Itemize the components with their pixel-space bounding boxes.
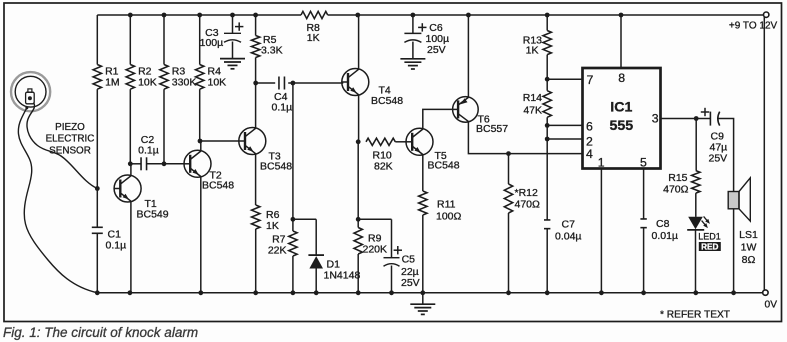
wire T2 emitter xyxy=(200,177,202,293)
LED LED1 xyxy=(687,216,710,292)
junction bottom rail R6 xyxy=(253,290,258,295)
wire pin1 to 0V xyxy=(600,169,602,293)
node 0V terminal xyxy=(763,290,777,311)
wire pin6 xyxy=(547,124,582,126)
svg-text:0V: 0V xyxy=(765,300,778,311)
wire T4 emitter xyxy=(358,95,360,142)
wire T3 collector xyxy=(255,83,257,128)
svg-text:0.04µ: 0.04µ xyxy=(555,230,582,242)
label RED xyxy=(699,242,721,252)
resistor R2 xyxy=(126,15,157,89)
svg-text:10K: 10K xyxy=(138,76,157,88)
resistor R13 xyxy=(523,15,552,79)
wire branch to D1 xyxy=(293,218,316,220)
junction bottom rail LED1 xyxy=(693,290,698,295)
resistor R10 xyxy=(366,138,395,172)
wire R2 junction to C2 xyxy=(130,163,141,165)
svg-text:R15: R15 xyxy=(668,172,687,184)
junction pin3/C9/R15 xyxy=(694,116,699,121)
pin 2 label xyxy=(586,134,593,148)
transistor T3 BC548 xyxy=(239,128,292,173)
resistor R8 xyxy=(301,11,328,44)
svg-text:BC548: BC548 xyxy=(202,179,234,191)
junction bottom rail C5 xyxy=(389,290,394,295)
transistor T6 BC557 xyxy=(453,97,509,135)
capacitor C3 xyxy=(200,15,244,59)
junction bottom rail D1 xyxy=(314,290,319,295)
svg-text:0.1µ: 0.1µ xyxy=(106,240,127,252)
junction bottom rail *R12 xyxy=(506,290,511,295)
wire pin3 xyxy=(661,118,697,120)
transistor T1 BC549 xyxy=(114,175,169,221)
svg-text:4: 4 xyxy=(586,147,593,161)
ground C3 xyxy=(220,59,245,69)
wire pin4 line xyxy=(509,153,583,155)
wire T5 emitter to R11 xyxy=(422,155,424,191)
transistor T2 BC548 xyxy=(184,150,234,191)
wire T5 collector to T6 base xyxy=(423,109,453,128)
wire pin6 to pin2 column xyxy=(546,125,548,139)
svg-text:330K: 330K xyxy=(172,76,197,88)
resistor R6 xyxy=(252,205,280,293)
wire R10 to T5 base xyxy=(395,141,406,143)
wire pin8 to +V xyxy=(620,15,622,68)
wire R3 to T2 base junction xyxy=(163,89,165,164)
svg-text:R11: R11 xyxy=(437,199,456,211)
wire T1 emitter xyxy=(130,201,132,292)
svg-text:1K: 1K xyxy=(307,32,320,44)
pin 3 label xyxy=(652,111,659,125)
junction bottom rail C7 xyxy=(545,290,550,295)
svg-text:8Ω: 8Ω xyxy=(742,254,756,266)
svg-text:BC548: BC548 xyxy=(428,159,460,171)
svg-text:25V: 25V xyxy=(427,44,446,56)
svg-text:100Ω: 100Ω xyxy=(436,210,462,222)
junction bottom rail T1 emitter xyxy=(127,290,132,295)
svg-text:5: 5 xyxy=(640,155,647,169)
wire C4 junction down xyxy=(292,83,294,219)
wire right-edge vertical xyxy=(763,15,765,290)
svg-text:3: 3 xyxy=(652,111,659,125)
junction bottom rail R11/ground xyxy=(420,290,425,295)
junction T1 base node xyxy=(95,186,100,191)
svg-text:25V: 25V xyxy=(709,153,728,165)
svg-text:PIEZO: PIEZO xyxy=(55,122,85,133)
diode D1 1N4148 xyxy=(308,219,360,292)
svg-text:1N4148: 1N4148 xyxy=(324,270,361,282)
svg-text:10K: 10K xyxy=(208,76,227,88)
transistor T4 BC548 xyxy=(342,69,403,108)
junction T1 collector/R2/C2 xyxy=(128,161,133,166)
junction bottom rail C8 xyxy=(641,290,646,295)
IC1 555 box xyxy=(583,68,661,169)
wire pin5 to C8 xyxy=(643,169,645,220)
svg-text:1W: 1W xyxy=(741,242,757,254)
resistor R4 xyxy=(196,15,227,89)
junction R14/pin6 xyxy=(545,123,550,128)
resistor R5 xyxy=(251,15,282,83)
wire branch to C5 xyxy=(358,218,391,220)
resistor R9 xyxy=(354,219,387,292)
wire T4 collector to +V xyxy=(358,15,360,69)
capacitor C6 xyxy=(404,15,449,59)
junction C4/R7 branch xyxy=(291,81,296,86)
svg-text:3.3K: 3.3K xyxy=(261,44,283,56)
svg-text:RED: RED xyxy=(701,243,718,252)
svg-text:BC548: BC548 xyxy=(371,95,403,107)
svg-text:47K: 47K xyxy=(523,105,542,117)
junction bottom rail R9 xyxy=(356,290,361,295)
svg-text:7: 7 xyxy=(587,73,594,87)
svg-text:C7: C7 xyxy=(562,219,576,231)
junction top rail R4 xyxy=(197,13,202,18)
wire C9 to speaker xyxy=(718,119,734,192)
node +9 TO 12V terminal xyxy=(729,12,778,32)
wire R2 to T1 collector junction xyxy=(129,89,131,164)
svg-text:220K: 220K xyxy=(363,243,388,255)
label piezo sensor xyxy=(46,122,95,156)
label IC1 xyxy=(609,100,633,135)
piezo electric sensor xyxy=(11,72,50,111)
wire T2 collector junction to T3 base xyxy=(200,140,239,142)
svg-text:LS1: LS1 xyxy=(739,229,758,241)
svg-text:Fig. 1: The circuit of knock a: Fig. 1: The circuit of knock alarm xyxy=(3,325,198,340)
wire T3 emitter to R6 xyxy=(255,154,257,205)
wire T1 collector xyxy=(130,164,132,176)
caption xyxy=(3,325,198,340)
pin 1 label xyxy=(598,155,605,169)
resistor R1 xyxy=(93,15,120,89)
junction R7/D1 branch xyxy=(291,217,296,222)
resistor R14 xyxy=(523,79,552,125)
capacitor C5 xyxy=(384,219,420,292)
svg-text:BC548: BC548 xyxy=(260,160,292,172)
svg-text:+9 TO 12V: +9 TO 12V xyxy=(729,21,778,32)
wire piezo lead to T1 base xyxy=(27,103,97,189)
junction top rail R13 xyxy=(545,13,550,18)
svg-text:1M: 1M xyxy=(105,76,120,88)
junction bottom rail LS1 xyxy=(731,290,736,295)
svg-text:C8: C8 xyxy=(656,218,670,230)
speaker LS1 xyxy=(728,178,750,293)
junction C2/R3/T2 base xyxy=(162,161,167,166)
pin 5 label xyxy=(640,155,647,169)
svg-text:ELECTRIC: ELECTRIC xyxy=(46,134,95,145)
wire R5/T3 to C4 xyxy=(256,82,276,84)
wire R4 to T2 collector junction xyxy=(199,89,201,141)
wire piezo lead to 0V rail xyxy=(18,108,97,293)
wire pin2 junction down to C7 xyxy=(546,139,548,220)
wire pin7 xyxy=(547,78,582,80)
svg-text:0.01µ: 0.01µ xyxy=(652,230,679,242)
junction bottom rail T2 emitter xyxy=(198,290,203,295)
pin 6 label xyxy=(586,120,593,134)
svg-text:25V: 25V xyxy=(401,277,420,289)
wire T4 emitter junction down to R9 xyxy=(357,142,359,220)
junction R5/T3/C4 xyxy=(253,81,258,86)
svg-text:1K: 1K xyxy=(526,45,539,57)
label LED1 xyxy=(698,231,721,241)
junction T4 emitter/R10/R9 xyxy=(356,139,361,144)
junction top rail T4 collector xyxy=(355,13,360,18)
junction top rail C6 xyxy=(411,13,416,18)
wire pin2 xyxy=(547,138,582,140)
svg-text:0.1µ: 0.1µ xyxy=(272,102,293,114)
resistor R15 xyxy=(663,119,700,217)
wire C2 to R3 junction xyxy=(147,163,164,165)
svg-text:82K: 82K xyxy=(374,161,393,173)
svg-text:1K: 1K xyxy=(266,220,279,232)
wire T6 emitter to +V xyxy=(467,15,469,97)
capacitor C8 xyxy=(640,218,678,293)
resistor *R12 xyxy=(504,154,540,293)
svg-text:R14: R14 xyxy=(523,92,542,104)
svg-text:SENSOR: SENSOR xyxy=(49,145,91,156)
wire top +V rail xyxy=(97,14,764,16)
pin 7 label xyxy=(587,73,594,87)
resistor R3 xyxy=(160,15,197,89)
capacitor C7 xyxy=(544,219,582,293)
svg-text:IC1: IC1 xyxy=(610,100,632,116)
svg-text:BC557: BC557 xyxy=(476,123,508,135)
junction bottom rail pin1 xyxy=(599,290,604,295)
junction top rail pin8 xyxy=(619,13,624,18)
junction top rail R3 xyxy=(162,13,167,18)
resistor R7 xyxy=(268,219,297,292)
svg-text:C5: C5 xyxy=(402,254,416,266)
svg-text:*R12: *R12 xyxy=(515,187,539,199)
junction pin4/*R12 xyxy=(506,151,511,156)
svg-text:0.1µ: 0.1µ xyxy=(138,145,159,157)
wire R3 junction to T2 base xyxy=(164,163,184,165)
junction pin2 column xyxy=(545,137,550,142)
junction bottom rail piezo/C1 xyxy=(95,290,100,295)
svg-text:470Ω: 470Ω xyxy=(515,199,541,211)
junction top rail R2 xyxy=(128,13,133,18)
pin 4 label xyxy=(586,147,593,161)
svg-text:8: 8 xyxy=(618,71,625,85)
svg-text:6: 6 xyxy=(586,120,593,134)
svg-text:1: 1 xyxy=(598,155,605,169)
resistor R11 xyxy=(419,191,462,293)
wire bottom 0V rail xyxy=(97,292,763,294)
transistor T5 BC548 xyxy=(406,128,460,171)
wire R1 to T1 base junction xyxy=(96,89,98,188)
svg-text:470Ω: 470Ω xyxy=(663,184,689,196)
svg-text:* REFER TEXT: * REFER TEXT xyxy=(660,310,730,321)
junction top rail C3 xyxy=(230,13,235,18)
wire T2 collector xyxy=(200,141,202,151)
ground C6 xyxy=(400,59,425,69)
junction R4/T2 collector/T3 base xyxy=(198,139,203,144)
capacitor C1 xyxy=(92,189,126,293)
junction R13/R14/pin7 xyxy=(545,77,550,82)
capacitor C4 xyxy=(272,77,293,114)
svg-text:555: 555 xyxy=(609,118,633,134)
pin 8 label xyxy=(618,71,625,85)
capacitor C9 xyxy=(696,108,727,165)
junction bottom rail R7 xyxy=(291,290,296,295)
junction top rail T6 emitter xyxy=(466,13,471,18)
svg-text:BC549: BC549 xyxy=(137,209,169,221)
ground main xyxy=(410,293,435,315)
junction top rail R5 xyxy=(253,13,258,18)
svg-text:22µ: 22µ xyxy=(401,266,419,278)
junction R9/C5 branch xyxy=(356,217,361,222)
capacitor C2 xyxy=(138,134,159,170)
wire C4 to T4 base xyxy=(288,82,343,84)
svg-text:100µ: 100µ xyxy=(200,37,224,49)
label LS1 xyxy=(739,229,758,266)
svg-text:LED1: LED1 xyxy=(698,231,721,241)
svg-text:22K: 22K xyxy=(268,245,287,257)
note refer text xyxy=(660,310,730,321)
wire T6 collector to pin4 line xyxy=(468,122,508,154)
